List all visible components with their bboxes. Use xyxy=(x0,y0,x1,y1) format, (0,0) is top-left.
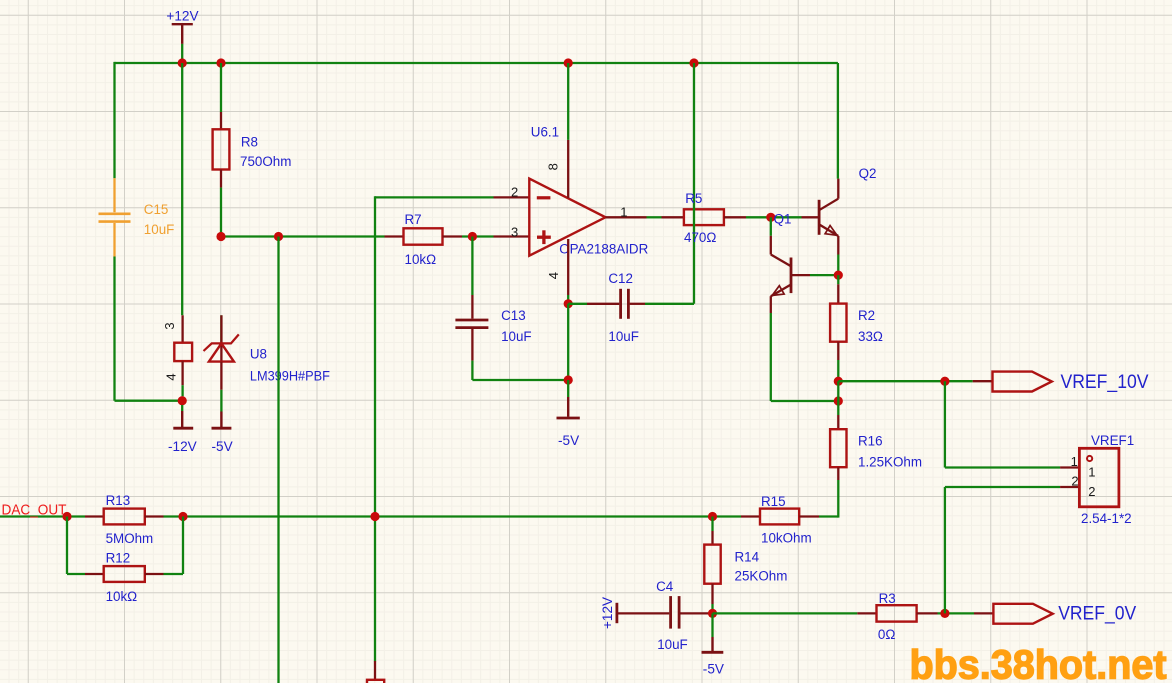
wire R16 to R15 row xyxy=(837,480,839,518)
svg-text:5MOhm: 5MOhm xyxy=(106,531,154,546)
wire Q1 base to node xyxy=(791,274,810,276)
resistor R14 xyxy=(711,517,713,532)
wire rail to Q2 collector xyxy=(837,63,839,179)
svg-text:10uF: 10uF xyxy=(608,329,639,344)
svg-text:Q1: Q1 xyxy=(774,211,792,226)
wire rail to R8 xyxy=(220,63,222,112)
svg-text:R15: R15 xyxy=(761,494,786,509)
resistor R16 xyxy=(837,401,839,415)
power -5V mid xyxy=(567,380,569,397)
svg-text:-5V: -5V xyxy=(703,661,724,676)
node junction R13 right xyxy=(178,512,187,521)
wire R8 node to R7 xyxy=(221,235,385,237)
wire left rail down xyxy=(113,62,115,178)
node junction top3 xyxy=(564,58,573,67)
svg-text:1: 1 xyxy=(620,204,627,219)
svg-text:4: 4 xyxy=(546,272,561,279)
svg-text:OPA2188AIDR: OPA2188AIDR xyxy=(559,241,648,256)
wire zener to -5V xyxy=(220,362,222,390)
svg-text:10uF: 10uF xyxy=(657,637,688,652)
node junction VREF1 pin2 branch xyxy=(940,609,949,618)
svg-text:1: 1 xyxy=(1088,464,1095,479)
wire R5 to Q node xyxy=(746,216,802,218)
capacitor C15 xyxy=(113,178,115,212)
node junction -5V mid xyxy=(564,375,573,384)
op-amp U6.1 triangle xyxy=(529,179,605,256)
wire pin3 node to C13 xyxy=(471,237,473,296)
svg-text:3: 3 xyxy=(162,322,177,329)
wire R13 to R15 xyxy=(164,515,742,517)
op-amp pin 8 xyxy=(567,140,569,198)
svg-text:2: 2 xyxy=(1088,484,1095,499)
node junction x375 xyxy=(370,512,379,521)
svg-text:C13: C13 xyxy=(501,308,526,323)
svg-text:R8: R8 xyxy=(241,135,258,150)
svg-text:-5V: -5V xyxy=(212,439,233,454)
node junction top4 xyxy=(689,58,698,67)
wire R7 to pin3 xyxy=(462,235,494,237)
svg-text:3: 3 xyxy=(511,224,518,239)
IC U8 heater pins 3/4 xyxy=(181,315,183,342)
svg-text:VREF_10V: VREF_10V xyxy=(1061,372,1149,393)
connector VREF1 xyxy=(1060,466,1079,468)
node junction top2 xyxy=(216,58,225,67)
capacitor C4 xyxy=(617,612,669,614)
wire Q2 emitter down xyxy=(837,236,839,255)
wire Q1 emitter down xyxy=(770,296,772,313)
svg-text:2: 2 xyxy=(511,185,518,200)
wire R8 to inamp row xyxy=(220,188,222,237)
resistor R3 xyxy=(857,612,876,614)
zener diode U8 body xyxy=(220,315,222,343)
op-amp pin 4 xyxy=(567,239,569,295)
wire C12 to vertical 694 xyxy=(645,303,694,305)
wire rail to pin 8 xyxy=(567,63,569,140)
wire C13 to -5V node xyxy=(471,361,473,380)
power -5V left xyxy=(220,412,222,428)
wire top rail xyxy=(115,62,838,64)
resistor R13 xyxy=(85,515,104,517)
wire C4 node to R3 xyxy=(713,612,858,614)
wire pin4 node down xyxy=(567,304,569,380)
capacitor C13 xyxy=(471,295,473,319)
svg-text:R5: R5 xyxy=(685,191,702,206)
svg-text:Q2: Q2 xyxy=(859,166,877,181)
node junction vertical 278 xyxy=(274,232,283,241)
port VREF_10V xyxy=(973,380,993,382)
op-amp pin 1 xyxy=(606,216,647,218)
svg-text:10uF: 10uF xyxy=(501,329,532,344)
svg-text:8: 8 xyxy=(546,163,561,170)
svg-text:U8: U8 xyxy=(250,347,267,362)
svg-text:10kΩ: 10kΩ xyxy=(405,252,437,267)
svg-text:R12: R12 xyxy=(106,550,131,565)
wire to VREF_10V port xyxy=(838,380,972,382)
svg-text:R16: R16 xyxy=(858,434,883,449)
svg-text:LM399H#PBF: LM399H#PBF xyxy=(250,369,330,384)
wire C15 bottom to -12V node xyxy=(113,257,115,401)
svg-text:bbs.38hot.net: bbs.38hot.net xyxy=(910,642,1167,683)
svg-text:R3: R3 xyxy=(879,591,896,606)
wire vertical 375 down xyxy=(374,196,376,661)
svg-text:C15: C15 xyxy=(144,202,169,217)
svg-text:10kΩ: 10kΩ xyxy=(106,589,138,604)
resistor R5 xyxy=(662,216,684,218)
svg-text:C4: C4 xyxy=(656,579,674,594)
resistor R8 xyxy=(220,112,222,129)
wire R3 to port xyxy=(938,612,975,614)
node junction VREF1 pin1 branch xyxy=(940,377,949,386)
svg-text:-5V: -5V xyxy=(558,433,579,448)
node junction VREF10 b xyxy=(834,396,843,405)
node junction pin4 xyxy=(564,299,573,308)
svg-text:R2: R2 xyxy=(858,308,875,323)
wire pin2 to vertical 375 xyxy=(375,196,494,198)
node junction pin3/C13 xyxy=(468,232,477,241)
port VREF_0V xyxy=(974,612,993,614)
power -12V xyxy=(181,405,183,411)
svg-text:R7: R7 xyxy=(405,212,422,227)
wire +12V to rail xyxy=(181,44,183,63)
node junction -12V xyxy=(178,396,187,405)
svg-text:U6.1: U6.1 xyxy=(531,124,559,139)
svg-text:-12V: -12V xyxy=(168,439,197,454)
svg-text:C12: C12 xyxy=(608,271,633,286)
svg-text:2: 2 xyxy=(1071,474,1078,489)
node junction top1 xyxy=(178,58,187,67)
svg-text:470Ω: 470Ω xyxy=(684,230,716,245)
transistor Q2 xyxy=(802,216,820,218)
transistor Q1 xyxy=(770,217,772,236)
op-amp minus symbol xyxy=(537,196,551,199)
svg-text:10uF: 10uF xyxy=(144,222,175,237)
resistor R15 xyxy=(741,515,760,517)
svg-text:DAC_OUT: DAC_OUT xyxy=(2,501,67,518)
svg-text:25KOhm: 25KOhm xyxy=(735,569,788,584)
resistor R2 xyxy=(837,275,839,284)
op-amp U6.1 pin 3 lead xyxy=(494,235,530,237)
node junction R8-R7 row xyxy=(216,232,225,241)
node junction Q2e-Q1b xyxy=(834,271,843,280)
svg-text:33Ω: 33Ω xyxy=(858,329,883,344)
resistor R7 xyxy=(385,235,404,237)
svg-text:10kOhm: 10kOhm xyxy=(761,531,812,546)
svg-text:+12V: +12V xyxy=(600,597,615,629)
svg-text:2.54-1*2: 2.54-1*2 xyxy=(1081,511,1132,526)
wire +12V col down to U8 xyxy=(181,63,183,315)
wire pin1 to R5 xyxy=(647,216,662,218)
wire vertical 694 up to rail xyxy=(693,63,695,304)
resistor partial at bottom edge xyxy=(374,661,376,680)
node junction Q1 collector xyxy=(766,213,775,222)
op-amp U6.1 pin 2 lead xyxy=(494,196,530,198)
wire DAC_OUT xyxy=(0,515,85,517)
svg-text:750Ohm: 750Ohm xyxy=(240,154,291,169)
node junction DAC xyxy=(62,512,71,521)
svg-text:4: 4 xyxy=(164,373,179,380)
wire VREF10 node to VREF1 pin1 xyxy=(944,381,946,467)
capacitor C12 xyxy=(568,303,587,305)
svg-text:R13: R13 xyxy=(106,493,131,508)
node junction C4/R14 xyxy=(708,609,717,618)
svg-text:VREF1: VREF1 xyxy=(1091,433,1134,448)
wire vertical 278 down xyxy=(277,237,279,683)
svg-text:VREF_0V: VREF_0V xyxy=(1058,604,1136,625)
svg-text:1: 1 xyxy=(1071,454,1078,469)
op-amp plus symbol xyxy=(537,236,551,239)
node junction R14 top xyxy=(708,512,717,521)
svg-text:0Ω: 0Ω xyxy=(878,627,895,642)
power +12V top xyxy=(172,23,193,25)
power -5V bottom xyxy=(711,613,713,637)
node junction VREF10 a xyxy=(834,377,843,386)
svg-text:+12V: +12V xyxy=(166,9,198,24)
resistor R12 parallel loop xyxy=(66,517,68,575)
svg-text:1.25KOhm: 1.25KOhm xyxy=(858,454,922,469)
wire VREF0 node to VREF1 pin2 xyxy=(944,487,946,613)
svg-text:R14: R14 xyxy=(735,550,760,565)
wire R2 to VREF10 node xyxy=(837,360,839,381)
